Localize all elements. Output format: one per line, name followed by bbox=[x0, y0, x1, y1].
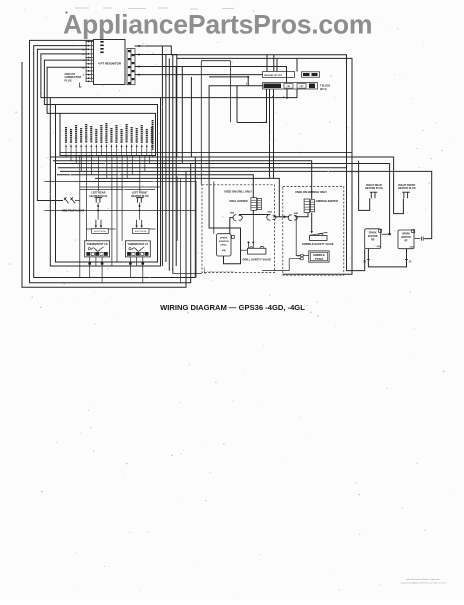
svg-text:WIRING DIAGRAM — GPS36 -4GD, -: WIRING DIAGRAM — GPS36 -4GD, -4GL bbox=[160, 303, 305, 312]
svg-text:with all licensed of Stores Co: with all licensed of Stores Corporation bbox=[406, 578, 440, 581]
svg-text:copyright 2004 AppliancePartsP: copyright 2004 AppliancePartsPros.com ri… bbox=[400, 582, 445, 585]
svg-text:(94): (94) bbox=[222, 249, 226, 252]
svg-text:SPARK: SPARK bbox=[220, 236, 228, 239]
svg-text:GROUND CKT CKT: GROUND CKT CKT bbox=[264, 75, 283, 77]
svg-text:W/B: W/B bbox=[294, 213, 299, 215]
svg-text:GRIDDLE IGNITER: GRIDDLE IGNITER bbox=[316, 200, 338, 203]
svg-text:GRIDDLE SAFETY VALVE: GRIDDLE SAFETY VALVE bbox=[302, 242, 334, 246]
svg-text:(92): (92) bbox=[377, 246, 381, 248]
svg-text:AppliancePartsPros.com: AppliancePartsPros.com bbox=[63, 10, 372, 40]
svg-text:IGNITION: IGNITION bbox=[219, 241, 229, 243]
svg-text:W/B: W/B bbox=[230, 213, 235, 215]
svg-text:(90-4): (90-4) bbox=[320, 88, 327, 91]
svg-text:(90): (90) bbox=[410, 246, 414, 248]
svg-text:1A: 1A bbox=[82, 66, 85, 69]
svg-text:In fabric of ay valve con orif: In fabric of ay valve con orifice bbox=[207, 271, 235, 273]
svg-text:IGNITOR: IGNITOR bbox=[401, 237, 411, 239]
svg-text:USED ON GRILL ONLY: USED ON GRILL ONLY bbox=[224, 189, 252, 193]
svg-text:IGNITOR: IGNITOR bbox=[368, 236, 378, 238]
svg-text:4 PT REIGNITOR: 4 PT REIGNITOR bbox=[98, 62, 122, 66]
svg-text:USED ON GRIDDLE ONLY: USED ON GRIDDLE ONLY bbox=[295, 190, 327, 194]
svg-text:GRILL SAFETY VALVE: GRILL SAFETY VALVE bbox=[242, 258, 271, 262]
svg-text:GRIDDLE: GRIDDLE bbox=[313, 253, 325, 257]
svg-text:T'STAT: T'STAT bbox=[315, 257, 324, 261]
svg-text:ELECTRODE: ELECTRODE bbox=[135, 231, 147, 233]
svg-text:THERMOSTAT LR: THERMOSTAT LR bbox=[87, 243, 108, 246]
svg-text:RED PILOT LIGHT: RED PILOT LIGHT bbox=[62, 208, 85, 212]
svg-text:SPARK: SPARK bbox=[402, 233, 410, 236]
svg-text:RR: RR bbox=[371, 240, 375, 242]
svg-text:PLUG: PLUG bbox=[65, 78, 72, 82]
svg-text:THERMOSTAT LF: THERMOSTAT LF bbox=[127, 243, 148, 246]
svg-text:SPARK: SPARK bbox=[369, 232, 377, 235]
svg-text:HEATER PLUG: HEATER PLUG bbox=[398, 187, 416, 190]
svg-text:GRILL: GRILL bbox=[220, 244, 227, 246]
svg-text:' .: ' . bbox=[238, 591, 240, 595]
svg-text:HEATER PLUG: HEATER PLUG bbox=[365, 187, 383, 190]
svg-text:GRILL IGNITER: GRILL IGNITER bbox=[229, 200, 247, 203]
svg-text:ELECTRODE: ELECTRODE bbox=[94, 231, 106, 233]
